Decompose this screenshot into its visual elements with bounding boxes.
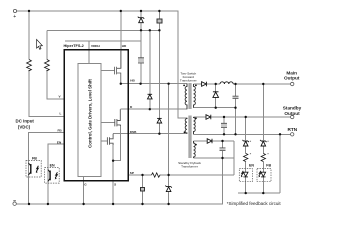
svg-text:DC Input: DC Input bbox=[16, 119, 35, 124]
svg-text:VDDH: VDDH bbox=[91, 44, 101, 48]
svg-text:+: + bbox=[13, 14, 16, 20]
svg-text:FB: FB bbox=[266, 163, 271, 167]
svg-text:HD: HD bbox=[122, 44, 127, 48]
svg-text:HiperTFS-2: HiperTFS-2 bbox=[64, 44, 84, 48]
svg-text:SP: SP bbox=[130, 171, 134, 175]
svg-text:*Simplified feedback circuit: *Simplified feedback circuit bbox=[227, 201, 282, 206]
svg-text:Transformer: Transformer bbox=[180, 78, 197, 82]
svg-text:(VDC): (VDC) bbox=[18, 124, 31, 129]
svg-text:Output: Output bbox=[284, 111, 300, 116]
svg-text:EN: EN bbox=[249, 163, 254, 167]
svg-text:EN: EN bbox=[57, 141, 62, 145]
svg-text:HB: HB bbox=[130, 79, 135, 83]
svg-text:FB: FB bbox=[32, 157, 37, 161]
svg-text:Output: Output bbox=[284, 76, 300, 81]
svg-text:L: L bbox=[60, 112, 62, 116]
svg-text:RTN: RTN bbox=[287, 127, 297, 132]
svg-text:Transformer: Transformer bbox=[181, 165, 198, 169]
svg-text:Control, Gate Drivers, Level S: Control, Gate Drivers, Level Shift bbox=[87, 79, 92, 148]
svg-text:DSB: DSB bbox=[130, 130, 137, 134]
svg-text:EN: EN bbox=[50, 163, 55, 167]
svg-text:S: S bbox=[114, 183, 116, 187]
